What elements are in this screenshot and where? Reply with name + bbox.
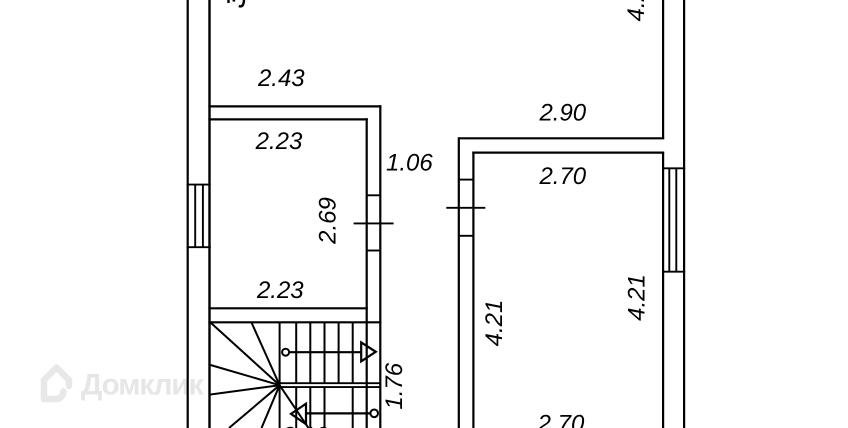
staircase winder fan xyxy=(211,323,309,428)
wall top-left room bottom outer xyxy=(208,105,381,107)
svg-text:4.21: 4.21 xyxy=(481,300,508,347)
wall room270 top inner xyxy=(472,152,664,154)
stair arrow up circle xyxy=(282,349,289,356)
svg-text:2.70: 2.70 xyxy=(537,411,585,428)
wall right outer line xyxy=(683,0,685,428)
svg-text:2.23: 2.23 xyxy=(255,128,303,155)
stair arrow down circle xyxy=(370,410,378,418)
wall room270 left inner xyxy=(472,152,474,428)
staircase treads lower flight xyxy=(296,387,353,428)
svg-text:2.19: 2.19 xyxy=(281,423,329,428)
door D1 jamb ticks xyxy=(367,195,381,250)
stair arrow down line xyxy=(306,412,370,414)
staircase divider double line xyxy=(280,383,381,387)
stair arrow up line xyxy=(289,351,361,353)
wall room223 right xyxy=(366,118,368,428)
wall left inner line xyxy=(208,0,210,428)
window W2 right wall xyxy=(662,168,685,271)
staircase treads upper flight xyxy=(296,322,353,383)
svg-text:2.43: 2.43 xyxy=(257,65,305,92)
wall staircase top xyxy=(208,321,381,323)
svg-text:1.06: 1.06 xyxy=(386,149,433,176)
watermark house logo xyxy=(44,368,69,400)
window W1 left wall xyxy=(187,185,211,248)
svg-text:4.21: 4.21 xyxy=(624,274,651,321)
svg-text:4.21: 4.21 xyxy=(623,0,650,22)
stair arrow up head xyxy=(361,342,376,361)
wall room270 left outer xyxy=(458,137,460,428)
staircase winder boundary line xyxy=(279,322,281,428)
wall room223 bottom xyxy=(208,307,367,309)
wall left outer line xyxy=(187,0,189,428)
svg-text:1.76: 1.76 xyxy=(381,362,408,409)
wall vertical x380 xyxy=(379,105,381,428)
svg-text:2.90: 2.90 xyxy=(538,100,586,127)
door D2 cross line xyxy=(446,207,485,209)
top cropped label fragments xyxy=(228,0,244,6)
door D2 jamb ticks xyxy=(459,180,474,236)
wall right inner lower segment xyxy=(662,153,664,428)
door D1 cross line xyxy=(354,222,394,224)
svg-text:2.70: 2.70 xyxy=(538,163,586,190)
svg-text:Домклик: Домклик xyxy=(81,369,205,402)
wall room223 top xyxy=(208,118,367,120)
wall room290 bottom outer xyxy=(459,137,664,139)
wall right inner upper segment xyxy=(662,0,664,138)
stair arrow down head xyxy=(291,404,306,425)
svg-text:2.23: 2.23 xyxy=(256,277,304,304)
svg-text:2.69: 2.69 xyxy=(315,197,342,245)
